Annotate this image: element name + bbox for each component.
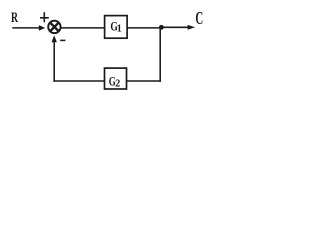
plus sign [40,12,49,22]
summing junction circle [48,21,60,33]
block G1 box [105,16,128,39]
takeoff node junction dot [159,25,164,30]
arrowhead into summing junction [39,25,45,31]
summing junction X [50,22,59,31]
svg-text:1: 1 [117,23,122,34]
wire node to C [163,26,189,28]
wire node down right vertical [159,27,161,81]
wire feedback up left vertical [53,37,55,82]
block G2 box [105,68,127,89]
wire R to summing junction [12,27,41,29]
svg-text:R: R [11,10,18,26]
wire bottom left segment [53,80,104,82]
arrowhead into summing junction bottom [52,35,57,42]
wire bottom right segment [127,80,161,82]
minus sign [60,39,65,41]
arrowhead output C [188,25,196,30]
svg-text:2: 2 [115,78,120,89]
wire summing junction to G1 [61,27,105,29]
svg-text:C: C [195,8,203,28]
wire G1 to node [127,27,161,29]
